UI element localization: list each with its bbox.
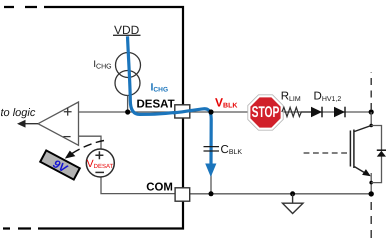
IGBT collector diagonal — [354, 126, 371, 132]
IC boundary vertical between DESAT and COM pins — [182, 118, 184, 188]
arrowhead to logic — [17, 120, 26, 128]
wire: V_DESAT bottom to COM rail — [101, 177, 175, 194]
current source I_CHG circles — [116, 53, 141, 78]
IGBT body bar — [353, 130, 355, 169]
wire: comparator minus input to V_DESAT top — [79, 136, 102, 149]
svg-text:VBLK: VBLK — [215, 95, 237, 109]
freewheeling diode branch wire — [371, 126, 381, 183]
comparator - symbol — [63, 136, 70, 138]
IGBT emitter diagonal with arrow — [354, 167, 364, 173]
comparator output wire with arrow to logic — [21, 123, 38, 125]
ground symbol — [292, 194, 294, 203]
junction dot at ground stem — [290, 191, 295, 196]
wire: C_BLK branch vertical — [210, 112, 212, 194]
STOP sign octagon — [248, 95, 283, 130]
diode D2 of D_HV1.2 — [334, 107, 345, 118]
svg-text:ICHG: ICHG — [151, 81, 169, 93]
IC boundary top dashed segment — [4, 6, 37, 8]
blue arrowhead at COM end of blue wire — [205, 164, 216, 178]
V_DESAT source circle — [86, 149, 114, 177]
VDD underline — [113, 34, 141, 36]
wire: emitter down to COM rail — [370, 173, 372, 194]
9V battery badge — [40, 150, 80, 180]
IGBT gate bar — [349, 131, 351, 167]
IC boundary top solid and right vertical to DESAT pin — [44, 7, 183, 105]
dashed arrow from V_DESAT to 9V battery — [72, 141, 104, 154]
svg-text:DESAT: DESAT — [137, 98, 175, 110]
comparator U1 triangle — [38, 102, 79, 145]
svg-text:COM: COM — [146, 182, 173, 194]
IC boundary vertical below COM pin and bottom solid — [38, 201, 183, 228]
freewheeling diode triangle pointing up — [377, 151, 386, 157]
svg-text:STOP: STOP — [252, 104, 280, 121]
capacitor C_BLK plates — [204, 147, 220, 151]
junction dot at C_BLK branch on COM rail — [209, 191, 214, 196]
dashed vertical below COM rail right end — [370, 202, 372, 239]
freewheeling diode cathode bar — [377, 149, 386, 151]
V_DESAT - symbol — [95, 171, 104, 173]
wire: main horizontal DESAT net from comparator + input to right junction — [79, 111, 372, 113]
wire: node down to collector branch — [370, 112, 372, 126]
arrowhead of dashed arrow — [65, 151, 76, 159]
resistor R_LIM zigzag — [282, 107, 311, 116]
DESAT pin square — [175, 105, 190, 118]
blue wire overlay through DESAT pin — [173, 110, 192, 113]
svg-text:DHV1,2: DHV1,2 — [314, 91, 342, 103]
V_DESAT + symbol — [95, 151, 103, 159]
svg-text:ICHG: ICHG — [93, 59, 111, 71]
junction dot at comparator + input on DESAT net — [125, 109, 130, 114]
svg-text:CBLK: CBLK — [221, 144, 243, 156]
junction dot at collector branch — [369, 124, 373, 128]
wire: COM rail from pin to right end — [190, 193, 372, 195]
blue wire I_CHG path from VDD down through source, right along DESAT, down through C_BLK — [128, 36, 212, 166]
junction dot at diode output node — [369, 109, 374, 114]
svg-text:RLIM: RLIM — [281, 91, 301, 103]
svg-text:to logic: to logic — [1, 107, 36, 119]
COM pin square — [175, 188, 190, 201]
junction dot at COM rail right end — [369, 191, 374, 196]
dashed vertical to DC bus above — [370, 72, 372, 110]
IGBT gate dashed wire — [304, 152, 351, 154]
IC boundary bottom dashed segment — [3, 227, 31, 229]
wire: current source bottom lead to DESAT node — [127, 96, 129, 113]
diode D1 of D_HV1.2 — [311, 107, 322, 118]
junction dot emitter/diode rail — [369, 181, 373, 185]
junction dot at V_BLK / C_BLK branch — [208, 109, 213, 114]
comparator + symbol — [64, 108, 72, 116]
